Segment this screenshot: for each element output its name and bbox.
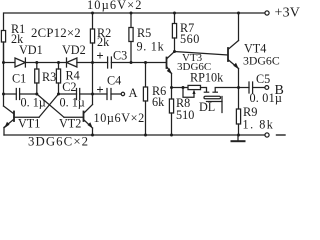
resistor R2 bbox=[92, 13, 94, 29]
wire cross coupling R4 to VT1 base bbox=[39, 94, 59, 117]
potentiometer RP bbox=[172, 87, 189, 89]
svg-text:C4: C4 bbox=[107, 74, 121, 88]
transistor VT3 bbox=[166, 58, 168, 69]
svg-text:10µ6V×2: 10µ6V×2 bbox=[94, 111, 145, 125]
capacitor C5 bbox=[239, 87, 250, 89]
svg-text:C2: C2 bbox=[62, 80, 76, 94]
transistor VT2 bbox=[83, 112, 85, 122]
transistor VT1 bbox=[13, 112, 15, 122]
svg-text:VD1: VD1 bbox=[19, 43, 43, 57]
resistor R6 bbox=[145, 63, 147, 88]
capacitor C2 bbox=[59, 93, 77, 95]
svg-text:10µ6V×2: 10µ6V×2 bbox=[87, 0, 143, 12]
transistor VT4 bbox=[227, 48, 229, 61]
resistor R9 bbox=[238, 88, 240, 110]
svg-text:A: A bbox=[129, 86, 138, 100]
svg-text:C5: C5 bbox=[256, 72, 270, 86]
node B terminal bbox=[265, 86, 269, 90]
wire top rail bbox=[4, 13, 266, 63]
svg-text:6k: 6k bbox=[152, 95, 165, 109]
wire bottom rail bbox=[4, 134, 265, 136]
svg-text:R3: R3 bbox=[42, 70, 56, 84]
svg-text:2k: 2k bbox=[97, 35, 110, 49]
resistor R1 bbox=[1, 31, 5, 43]
ground bbox=[237, 135, 239, 141]
resistor R4 bbox=[56, 69, 60, 83]
resistor R3 bbox=[35, 69, 39, 83]
node A terminal bbox=[121, 92, 124, 95]
wire collector column VT2 bbox=[92, 63, 94, 95]
svg-text:C1: C1 bbox=[12, 72, 26, 86]
svg-text:3DG6C: 3DG6C bbox=[243, 54, 280, 68]
svg-text:VD2: VD2 bbox=[62, 43, 86, 57]
svg-text:0. 1µ: 0. 1µ bbox=[21, 96, 46, 110]
svg-text:+3V: +3V bbox=[275, 6, 301, 21]
svg-text:9. 1k: 9. 1k bbox=[137, 39, 165, 53]
svg-text:VT2: VT2 bbox=[59, 117, 81, 131]
wire bus to VT3 bbox=[131, 62, 166, 64]
svg-text:2CP12×2: 2CP12×2 bbox=[31, 26, 81, 40]
svg-text:VT1: VT1 bbox=[18, 117, 40, 131]
wire cross coupling R3 to VT2 base bbox=[37, 94, 64, 117]
svg-text:R5: R5 bbox=[137, 26, 151, 40]
node minus terminal bbox=[265, 133, 269, 137]
svg-text:0. 1µ: 0. 1µ bbox=[60, 96, 85, 110]
capacitor C1 bbox=[4, 93, 17, 95]
svg-text:1. 8k: 1. 8k bbox=[243, 118, 275, 132]
wire left rail bbox=[3, 42, 5, 106]
wire VT3 collector to VT4 base bbox=[175, 52, 228, 56]
resistor R5 bbox=[130, 13, 132, 28]
svg-text:3DG6C×2: 3DG6C×2 bbox=[28, 135, 89, 148]
resistor R8 bbox=[169, 99, 173, 113]
label minus bbox=[277, 134, 286, 136]
diode VD1 bbox=[4, 62, 16, 64]
svg-text:C3: C3 bbox=[113, 49, 127, 63]
junction dots bbox=[91, 12, 94, 15]
wire bus VD1-VD2 bbox=[37, 62, 67, 64]
svg-text:510: 510 bbox=[176, 108, 194, 122]
svg-text:RP10k: RP10k bbox=[190, 71, 224, 85]
svg-text:B: B bbox=[275, 83, 284, 98]
capacitor C3 bbox=[93, 62, 108, 64]
diode VD2 bbox=[66, 58, 68, 67]
earphone DL bbox=[201, 88, 207, 92]
capacitor C4 bbox=[93, 93, 108, 95]
node +3V terminal bbox=[265, 11, 269, 15]
resistor R7 bbox=[174, 13, 176, 24]
svg-text:560: 560 bbox=[180, 32, 200, 46]
